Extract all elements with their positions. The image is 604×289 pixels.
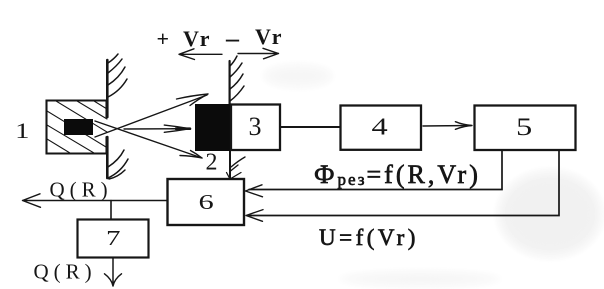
block 6	[168, 179, 245, 225]
svg-text:Vr: Vr	[255, 24, 284, 49]
block 1 hatch lines	[47, 101, 107, 153]
+Vr left arrow	[179, 49, 222, 60]
wall W2	[229, 61, 231, 105]
svg-text:Vr: Vr	[183, 26, 212, 51]
ray A up-right	[95, 95, 207, 137]
svg-text:+: +	[157, 26, 170, 51]
scan smudge bottom	[330, 269, 510, 289]
block 7	[78, 220, 149, 258]
arrowhead feedback 1 into block 6	[246, 185, 263, 197]
block 3	[231, 105, 280, 151]
feedback wire 2 (U) from block 5 to block 6	[249, 151, 559, 216]
detector black rect	[195, 104, 231, 151]
-Vr right arrow	[238, 48, 279, 59]
svg-text:4: 4	[372, 114, 388, 140]
scan smudge top-middle	[258, 61, 338, 91]
wall W1 hatches top	[108, 54, 127, 97]
svg-text:7: 7	[106, 226, 121, 250]
feedback wire 1 (Phi) from block 5 to block 6	[249, 151, 502, 190]
svg-text:–: –	[225, 24, 240, 53]
wall W1 hatches bottom	[108, 150, 128, 179]
svg-text:5: 5	[516, 113, 532, 141]
wire to block 7	[110, 201, 112, 220]
Q(R) output arrow from block 6	[23, 194, 168, 208]
wall W2 hatches	[230, 56, 244, 101]
ray B down-right	[95, 121, 202, 158]
ray A arrowhead	[177, 94, 209, 106]
svg-text:6: 6	[199, 191, 214, 214]
wire block 3 to block 4	[280, 126, 341, 128]
svg-text:1: 1	[15, 118, 29, 143]
arrowhead into block 6 top	[227, 173, 242, 180]
emitter black rect inside block 1	[64, 119, 93, 135]
block 4	[341, 106, 422, 150]
ray C horizontal	[124, 128, 190, 130]
scan smudge right	[495, 168, 604, 260]
ray C arrowhead	[164, 125, 190, 132]
wire block 4 to block 5	[423, 125, 471, 128]
ray B arrowhead	[180, 151, 202, 159]
block 1 body	[47, 101, 107, 154]
arrowhead into block 5	[455, 122, 472, 130]
svg-text:Q(R): Q(R)	[34, 260, 97, 284]
wire detector to block 6	[229, 151, 231, 179]
wall W2 lower hatches	[231, 157, 246, 171]
svg-text:U=f(Vr): U=f(Vr)	[319, 225, 419, 250]
svg-text:Q(R): Q(R)	[50, 178, 113, 202]
svg-text:3: 3	[249, 112, 262, 141]
svg-text:2: 2	[206, 150, 218, 176]
block 7 down arrow	[105, 258, 122, 287]
wall W1	[106, 60, 109, 178]
block 5	[475, 106, 576, 151]
arrowhead feedback 2 into block 6	[246, 210, 263, 222]
